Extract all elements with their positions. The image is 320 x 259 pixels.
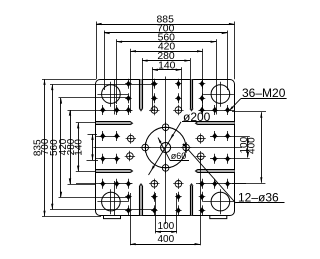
extension line 140 left xyxy=(152,67,154,111)
T-slot left lower horizontal xyxy=(96,169,133,173)
label 36-M20 with leader xyxy=(229,86,287,111)
row line r6 left xyxy=(76,183,133,185)
label D200 with leader xyxy=(149,110,212,175)
extension line 560 right xyxy=(216,39,218,114)
locating ring circle D200 xyxy=(145,127,186,168)
M20 tapped holes grid (36x) xyxy=(100,79,231,216)
T-slot bottom-right vertical xyxy=(189,183,193,215)
extension line bottom 100 right xyxy=(176,193,178,233)
extension line 420 right xyxy=(202,49,204,113)
extension line 700 right xyxy=(227,31,229,91)
tie-bar hole bottom-left xyxy=(97,189,128,214)
svg-text:140: 140 xyxy=(158,60,176,71)
extension line 400 right bottom xyxy=(232,183,265,185)
extension line 280 left xyxy=(142,58,144,79)
tie-bar hole bottom-right xyxy=(203,189,234,214)
extension line 700 left xyxy=(104,31,106,91)
column line c2 top-left xyxy=(114,79,116,114)
dimension 700 left xyxy=(40,85,53,210)
extension line 140 bottom xyxy=(87,160,99,162)
dimension 100 bottom xyxy=(155,221,177,233)
svg-text:400: 400 xyxy=(157,234,174,245)
row line r4 right xyxy=(210,136,250,138)
extension line 280 right xyxy=(190,58,192,79)
dimension 560 top xyxy=(117,32,217,43)
dimension 700 top xyxy=(104,24,227,35)
svg-text:100: 100 xyxy=(158,221,175,232)
extension line 420 bottom xyxy=(68,184,97,186)
extension line 835 bottom xyxy=(42,216,101,218)
mounting foot bottom-left xyxy=(104,215,121,218)
dimension 280 left xyxy=(66,123,79,171)
horizontal centerline xyxy=(94,147,243,149)
extension line 560 bottom xyxy=(59,197,131,199)
extension line 140 top xyxy=(88,134,98,136)
row line r3 right xyxy=(199,110,235,112)
extension line 280 bottom xyxy=(76,171,96,173)
row line r5 left xyxy=(96,158,119,160)
extension line 885 left xyxy=(96,22,98,80)
svg-text:ø60: ø60 xyxy=(171,151,187,161)
T-slot bottom-left vertical xyxy=(139,183,143,215)
extension line 140 right xyxy=(181,67,183,111)
extension line 885 right xyxy=(234,22,236,80)
extension line 280 top xyxy=(76,122,96,124)
T-slot top-left vertical xyxy=(139,79,143,111)
T-slot right lower horizontal xyxy=(195,169,235,173)
dimension 420 left xyxy=(58,110,71,184)
dimension 835 left xyxy=(32,79,45,216)
dimension 885 top xyxy=(96,15,235,26)
extension line bottom 400 right xyxy=(200,158,202,246)
vertical centerline xyxy=(165,77,167,225)
dimension 140 left xyxy=(74,134,94,160)
tie-bar hole top-right xyxy=(203,82,234,107)
svg-text:400: 400 xyxy=(247,137,258,154)
dimension 280 top xyxy=(142,51,190,62)
row line r6 right xyxy=(196,183,246,185)
row line r5 right xyxy=(210,158,250,160)
extension line 400 right top xyxy=(232,111,266,113)
extension line 420 left xyxy=(130,49,132,113)
extension line 700 top xyxy=(50,84,157,86)
extension line bottom 400 left xyxy=(130,193,132,245)
extension line 835 top xyxy=(42,79,96,81)
svg-text:36–M20: 36–M20 xyxy=(242,86,286,100)
extension line 560 top xyxy=(59,97,131,99)
dimension 560 left xyxy=(49,98,62,197)
label 12-D36 with leader xyxy=(182,143,284,204)
T-slot left upper horizontal xyxy=(96,121,133,125)
tie-bar hole top-left xyxy=(97,82,128,107)
dimension 400 right xyxy=(247,112,263,183)
T-slot top-right vertical xyxy=(189,79,193,111)
row line r4 left xyxy=(96,136,119,138)
extension line bottom 100 left xyxy=(155,193,157,233)
row line r3 left xyxy=(96,110,133,112)
extension line 700 bottom xyxy=(50,209,157,211)
dimension 140 top xyxy=(152,60,181,71)
dimension 420 top xyxy=(130,42,202,53)
D36 ejector holes (12x) xyxy=(125,105,206,189)
extension line 420 top xyxy=(68,110,97,112)
center hole D60 xyxy=(161,143,171,153)
extension line 560 left xyxy=(116,39,118,104)
dimension 400 bottom xyxy=(130,234,200,245)
label D60 with leader xyxy=(158,138,189,162)
platen plate outline xyxy=(96,80,235,216)
svg-text:140: 140 xyxy=(74,139,85,156)
T-slot right upper horizontal xyxy=(195,121,235,125)
mounting foot bottom-right xyxy=(210,215,227,218)
dimension 100 right xyxy=(239,136,250,157)
column line c2 bottom-left xyxy=(114,181,116,215)
